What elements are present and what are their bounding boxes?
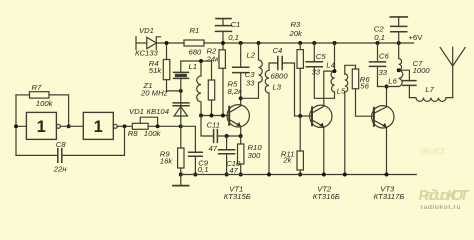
svg-text:2k: 2k: [282, 156, 292, 165]
wire: terminal to VD1 anode: [136, 42, 147, 44]
node: L1 top: [199, 59, 203, 63]
resistor R4 51k branch: [166, 43, 168, 60]
svg-text:100k: 100k: [36, 99, 54, 108]
resistor R5 8,2k: [211, 61, 213, 80]
svg-text:0,1: 0,1: [374, 33, 385, 42]
resistor R2 24k branch: [222, 43, 224, 50]
svg-text:0,1: 0,1: [198, 165, 209, 174]
resistor R3 20k branch: [299, 43, 301, 50]
svg-text:КТ3117Б: КТ3117Б: [374, 192, 405, 201]
resistor R11 2k: [299, 116, 301, 151]
multivibrator gate DD1.1: [26, 112, 56, 139]
wire: VD1 cathode to R1: [156, 42, 184, 44]
resistor R10 300: [240, 136, 242, 144]
svg-text:radiokot.ru: radiokot.ru: [421, 204, 461, 211]
wire: gate2 output: [117, 125, 131, 127]
svg-text:1: 1: [94, 118, 103, 136]
node: rail/C1/R2: [221, 41, 225, 45]
resistor R7 100k feedback: [16, 94, 30, 96]
svg-text:L7: L7: [425, 85, 434, 94]
svg-text:Радио КОТ: Радио КОТ: [419, 188, 470, 204]
svg-text:L2: L2: [247, 51, 256, 60]
inductor L7: [409, 98, 452, 102]
wire: VT3 collector node: [378, 86, 399, 88]
svg-text:51k: 51k: [149, 66, 163, 75]
node: rail/R4: [165, 41, 169, 45]
node: base/R5: [210, 114, 214, 118]
svg-text:Радио КОТ: Радио КОТ: [420, 147, 448, 157]
node: VT3 collector: [385, 85, 389, 89]
node: rail/VT2 emitter: [322, 173, 326, 177]
svg-text:VD1: VD1: [129, 107, 144, 116]
zener diode VD1 KC133: [147, 37, 157, 48]
svg-text:L1: L1: [189, 62, 198, 71]
inductor L1: [197, 61, 201, 116]
svg-text:КВ104: КВ104: [147, 107, 170, 116]
svg-text:C1: C1: [231, 20, 241, 29]
resistor R1 680: [184, 40, 204, 46]
svg-text:1000: 1000: [413, 66, 431, 75]
svg-text:680: 680: [189, 48, 203, 57]
node: rail/VT3 emitter: [385, 173, 389, 177]
node: rail/C3: [239, 41, 243, 45]
trimmer resistor R8 100k: [132, 123, 148, 129]
svg-text:24к: 24к: [206, 54, 220, 63]
svg-text:300: 300: [248, 151, 262, 160]
node: R4/Z1/VD1 junction: [179, 89, 183, 93]
wire: left terminal bar of top rail: [135, 37, 137, 50]
node: L4 collector tap: [333, 69, 337, 73]
wire: varactor node to C9: [181, 126, 196, 152]
node: rail/C5: [312, 41, 316, 45]
svg-text:6800: 6800: [271, 71, 289, 80]
svg-text:100k: 100k: [144, 129, 162, 138]
crystal Z1 20 MHz: [181, 61, 212, 72]
svg-text:C4: C4: [273, 46, 283, 55]
wire: VT1 base line: [201, 115, 229, 117]
ground: [180, 175, 182, 186]
svg-text:КТ316Б: КТ316Б: [313, 192, 340, 201]
svg-text:КТ315Б: КТ315Б: [224, 192, 251, 201]
svg-text:C11: C11: [207, 121, 221, 130]
node: rail/L2: [257, 41, 261, 45]
resistor R9 16k: [180, 126, 182, 148]
wire: top rail R1 to +6V end: [204, 42, 414, 44]
svg-text:L3: L3: [273, 83, 282, 92]
wire: R8 wiper tap: [140, 117, 157, 126]
inductor L5: [345, 65, 356, 74]
svg-text:R8: R8: [128, 129, 139, 138]
svg-text:C8: C8: [56, 140, 67, 149]
wire: gate1 input rail: [16, 95, 26, 155]
inductor L3: [269, 63, 278, 70]
capacitor C2 0,1: [398, 32, 400, 43]
node: VT1 collector: [239, 96, 243, 100]
svg-text:R7: R7: [32, 83, 43, 92]
inductor L2: [241, 43, 263, 98]
multivibrator gate DD1.2: [83, 112, 113, 139]
capacitor C3 33: [240, 43, 242, 67]
node: base/R2: [221, 114, 225, 118]
capacitor C7 1000: [399, 70, 410, 80]
svg-text:20k: 20k: [289, 29, 304, 38]
svg-text:C6: C6: [379, 52, 390, 61]
svg-text:R3: R3: [291, 20, 302, 29]
svg-text:C2: C2: [374, 24, 385, 33]
inductor L6: [399, 43, 403, 87]
svg-text:20 MHz: 20 MHz: [140, 88, 168, 97]
node: rail/L5: [343, 173, 347, 177]
capacitor C11 47: [201, 116, 214, 137]
wire: gate1 output to gate2 input: [60, 125, 83, 127]
capacitor C8 22n feedback: [62, 126, 125, 155]
node: rail/L4: [333, 41, 337, 45]
node: rail/C2/L6 +6V: [397, 41, 401, 45]
transistor VT3 KT3117B: [372, 106, 394, 128]
antenna W1: [452, 47, 454, 97]
inductor L4: [331, 43, 334, 92]
node: rail/C6: [376, 41, 380, 45]
svg-text:L5: L5: [337, 86, 346, 95]
svg-text:1: 1: [37, 118, 46, 136]
capacitor C9 0,1: [189, 152, 203, 156]
svg-text:33: 33: [379, 68, 388, 77]
capacitor C4 6800: [278, 57, 282, 70]
node: L6 tap: [397, 68, 401, 72]
svg-text:+6V: +6V: [409, 33, 424, 42]
wire: bottom common rail: [181, 174, 416, 176]
svg-text:33: 33: [312, 68, 321, 77]
svg-text:33: 33: [246, 79, 255, 88]
svg-text:8,2к: 8,2к: [228, 87, 243, 96]
svg-text:47: 47: [229, 166, 238, 175]
resistor R6 56: [355, 65, 357, 69]
svg-text:56: 56: [360, 82, 369, 91]
svg-text:R1: R1: [190, 26, 200, 35]
node: rail/L3: [267, 173, 271, 177]
svg-text:16k: 16k: [160, 156, 174, 165]
node: base/L1: [199, 114, 203, 118]
capacitor C5 33: [313, 43, 315, 62]
svg-text:0,1: 0,1: [228, 33, 239, 42]
capacitor C1 0,1: [222, 31, 224, 43]
svg-text:22н: 22н: [53, 164, 68, 173]
node: VT2 base junction: [298, 114, 302, 118]
varactor VD1 KB104: [180, 91, 182, 126]
svg-text:L4: L4: [326, 61, 335, 70]
capacitor C6 33: [377, 43, 379, 62]
transistor VT2 KT316B: [310, 105, 332, 127]
watermark radiokot: [419, 147, 470, 211]
svg-text:VD1: VD1: [139, 26, 154, 35]
svg-text:47: 47: [209, 144, 218, 153]
node: rail/R3: [298, 41, 302, 45]
capacitor C10 47: [226, 136, 228, 150]
svg-text:C5: C5: [316, 52, 327, 61]
transistor VT1 KT315B: [227, 105, 249, 127]
svg-text:КС133: КС133: [135, 48, 159, 57]
svg-text:L6: L6: [388, 76, 397, 85]
